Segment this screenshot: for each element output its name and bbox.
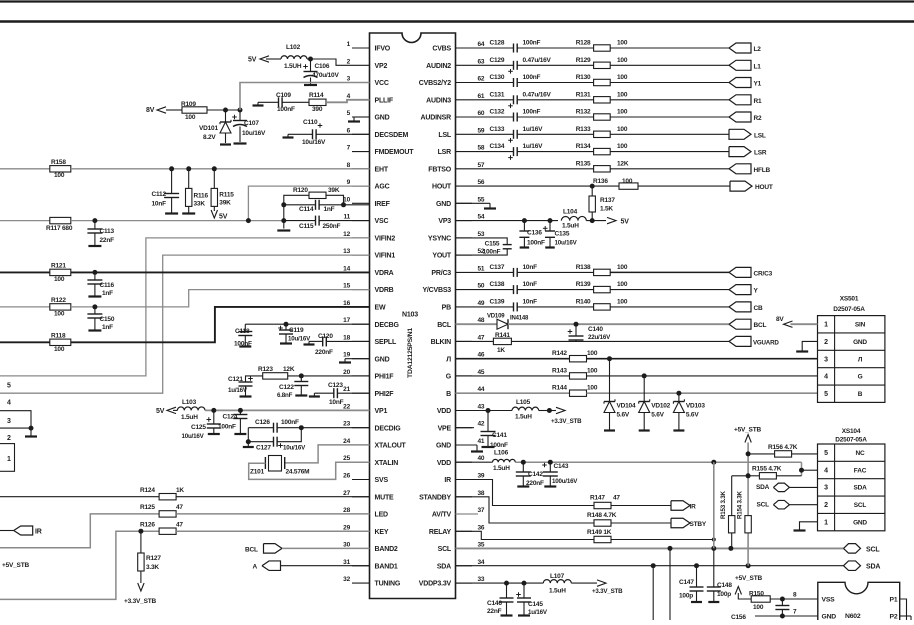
- wire C148 drop: [713, 548, 715, 586]
- wire left edge to R122: [0, 306, 50, 308]
- svg-text:SDA: SDA: [866, 564, 880, 571]
- svg-text:60: 60: [478, 110, 485, 117]
- svg-text:C134: C134: [490, 143, 505, 150]
- svg-text:10nF: 10nF: [329, 399, 344, 406]
- wire left edge to R121: [0, 271, 50, 273]
- svg-text:R147: R147: [590, 495, 605, 502]
- wire R126 to pin 29: [176, 530, 369, 532]
- svg-text:GND: GND: [436, 201, 451, 208]
- pin 41 stub: [436, 438, 485, 450]
- node C112: [169, 166, 174, 171]
- wire pin 36 route: [456, 531, 595, 539]
- pin 48 stub: [437, 317, 485, 329]
- node C127 left: [246, 439, 251, 444]
- svg-text:27: 27: [343, 490, 350, 497]
- svg-text:GND: GND: [375, 115, 390, 122]
- node C122: [299, 373, 304, 378]
- svg-text:IREF: IREF: [375, 201, 391, 208]
- svg-text:BAND2: BAND2: [375, 546, 398, 553]
- svg-text:0.47u/16V: 0.47u/16V: [523, 91, 552, 98]
- svg-text:VCC: VCC: [375, 80, 389, 87]
- svg-text:2: 2: [824, 339, 828, 346]
- wire SCL flag to XS104 pin2: [789, 504, 817, 506]
- svg-text:51: 51: [478, 265, 485, 272]
- svg-text:42: 42: [478, 421, 485, 428]
- svg-text:HOUT: HOUT: [755, 184, 773, 191]
- wire BCL flag to pin 30: [282, 547, 370, 549]
- resistor R141: [493, 332, 511, 354]
- zener VD101: [199, 110, 231, 143]
- svg-text:A: A: [253, 564, 258, 571]
- IC N602 pin GND: [822, 614, 837, 621]
- wire pin 43 to L105: [456, 410, 489, 412]
- connector far-left pin 5: [7, 383, 11, 390]
- resistor R122: [50, 297, 71, 318]
- svg-text:1.5K: 1.5K: [600, 206, 613, 213]
- svg-text:26: 26: [343, 473, 350, 480]
- svg-text:1.5UH: 1.5UH: [284, 63, 302, 70]
- svg-text:10nF: 10nF: [523, 264, 538, 271]
- flag Y1: [729, 78, 762, 88]
- pin 63 stub: [426, 58, 485, 70]
- svg-text:GND: GND: [436, 443, 451, 450]
- svg-text:1u/16V: 1u/16V: [228, 387, 248, 394]
- svg-text:TUNING: TUNING: [375, 581, 401, 588]
- wire ground bus: [277, 205, 290, 231]
- svg-text:41: 41: [478, 438, 485, 445]
- node VD101: [223, 108, 228, 113]
- svg-text:100: 100: [587, 385, 598, 392]
- svg-text:220nF: 220nF: [315, 349, 333, 356]
- node R127: [138, 529, 143, 534]
- wire C147 drop: [696, 566, 698, 587]
- svg-text:STBY: STBY: [690, 521, 707, 528]
- svg-text:Y1: Y1: [754, 81, 762, 88]
- node R115: [212, 166, 217, 171]
- svg-text:+5V_STB: +5V_STB: [734, 427, 761, 434]
- wire pin 9 riser: [248, 186, 369, 221]
- capacitor C121: [228, 376, 263, 396]
- svg-text:C130: C130: [490, 74, 505, 81]
- connector XS104 body: [818, 444, 885, 531]
- svg-text:10u/16V: 10u/16V: [288, 336, 311, 343]
- svg-text:AUDIN2: AUDIN2: [426, 63, 451, 70]
- node R116: [186, 166, 191, 171]
- wire C114 to pin 10: [319, 204, 369, 206]
- node SDA/R154: [746, 563, 751, 568]
- svg-text:GND: GND: [822, 614, 837, 621]
- svg-text:VSC: VSC: [375, 218, 389, 225]
- flag IR (right): [671, 501, 696, 511]
- svg-text:100nF: 100nF: [523, 109, 541, 116]
- wire C155 to pin 52: [456, 249, 508, 255]
- wire R117 to C115: [71, 220, 284, 222]
- svg-text:8V: 8V: [146, 107, 155, 114]
- svg-text:CR/C3: CR/C3: [754, 270, 773, 277]
- capacitor C137 / resistor R138 row: [472, 264, 729, 277]
- wire R121 to pin 14: [71, 271, 370, 273]
- svg-text:24.576M: 24.576M: [286, 469, 310, 476]
- capacitor C114: [299, 200, 335, 213]
- svg-text:3.3K: 3.3K: [146, 564, 159, 571]
- svg-text:38: 38: [478, 490, 485, 497]
- svg-text:FAC: FAC: [854, 467, 867, 474]
- capacitor C106: [303, 59, 339, 84]
- node C145: [522, 581, 527, 586]
- power 5V (L104): [607, 217, 629, 225]
- svg-text:C133: C133: [490, 126, 505, 133]
- pin 3 stub: [347, 76, 389, 88]
- svg-text:31: 31: [343, 559, 350, 566]
- svg-text:FMDEMOUT: FMDEMOUT: [375, 149, 415, 156]
- svg-text:R114: R114: [309, 92, 324, 99]
- wire pin 25 to crystal: [249, 462, 370, 479]
- wire row10 left: [284, 204, 316, 206]
- pin 6 stub: [347, 127, 409, 139]
- ground C143: [544, 485, 556, 487]
- svg-text:+5V_STB: +5V_STB: [735, 575, 762, 582]
- svg-text:5.6V: 5.6V: [686, 412, 699, 419]
- ground VD102: [639, 429, 650, 431]
- svg-text:33K: 33K: [194, 201, 206, 208]
- wire C110 to pin 6: [316, 133, 369, 135]
- capacitor C146: [487, 583, 514, 615]
- node SCL/R153: [728, 546, 733, 551]
- svg-text:G: G: [446, 374, 452, 381]
- svg-text:7: 7: [793, 609, 797, 616]
- connector XS501 title: [833, 296, 865, 314]
- svg-text:11: 11: [344, 214, 351, 221]
- node SDA/C bus: [651, 563, 656, 568]
- svg-text:C126: C126: [255, 419, 270, 426]
- svg-text:VD109: VD109: [487, 314, 505, 320]
- wire R114 to pin 4: [326, 100, 370, 103]
- node SDA/C147: [694, 563, 699, 568]
- svg-text:C147: C147: [679, 579, 694, 586]
- svg-text:250nF: 250nF: [323, 223, 341, 230]
- wire pin 48 to VD109: [456, 323, 498, 325]
- svg-text:SDA: SDA: [853, 485, 867, 492]
- pin 9 stub: [347, 179, 390, 191]
- svg-text:R2: R2: [754, 115, 762, 122]
- svg-text:N602: N602: [845, 613, 861, 620]
- wire FAC to XS104: [802, 469, 818, 471]
- capacitor C133 / resistor R133 row: [472, 126, 729, 143]
- svg-text:C125: C125: [191, 424, 206, 431]
- svg-text:46: 46: [478, 352, 485, 359]
- svg-text:R126: R126: [140, 522, 155, 529]
- svg-text:R121: R121: [51, 263, 66, 270]
- svg-text:VIFIN1: VIFIN1: [375, 253, 396, 260]
- resistor R127: [138, 531, 162, 583]
- svg-text:KEY: KEY: [375, 529, 389, 536]
- svg-text:C119: C119: [289, 327, 304, 334]
- svg-text:R143: R143: [552, 367, 567, 374]
- node C114/C115 ground bus top: [281, 202, 286, 207]
- wire left edge to R124: [0, 496, 159, 498]
- svg-text:LSL: LSL: [438, 132, 452, 139]
- capacitor C127: [256, 437, 306, 452]
- svg-text:R124: R124: [140, 487, 155, 494]
- wire P2 stub: [900, 616, 911, 620]
- svg-text:C109: C109: [276, 92, 291, 99]
- svg-text:55: 55: [478, 196, 485, 203]
- svg-text:RELAY: RELAY: [429, 529, 452, 536]
- svg-text:IR: IR: [35, 529, 42, 536]
- svg-text:VDDP3.3V: VDDP3.3V: [419, 581, 452, 588]
- node C125: [211, 408, 216, 413]
- pin 47 stub: [431, 334, 485, 346]
- pin 40 stub: [437, 455, 485, 467]
- svg-text:XTALIN: XTALIN: [375, 460, 399, 467]
- capacitor C123: [328, 382, 344, 406]
- wire L102 to pin 2: [307, 59, 352, 65]
- capacitor C148: [707, 582, 733, 601]
- svg-text:DECBG: DECBG: [375, 322, 400, 329]
- ground C136: [520, 246, 530, 248]
- pin 64 stub: [432, 41, 485, 53]
- capacitor C140: [568, 324, 611, 341]
- wire R122 jog to pin 15: [71, 290, 370, 307]
- svg-text:SDA: SDA: [437, 563, 451, 570]
- node C141: [486, 408, 491, 413]
- svg-text:16: 16: [343, 300, 350, 307]
- svg-text:VSS: VSS: [822, 597, 836, 604]
- svg-text:10nF: 10nF: [152, 201, 167, 208]
- svg-text:SCL: SCL: [854, 502, 867, 509]
- capacitor C128 / resistor R128 row: [472, 40, 729, 53]
- svg-text:C146: C146: [487, 600, 502, 607]
- svg-text:100nF: 100nF: [527, 240, 545, 247]
- svg-text:AUDIN3: AUDIN3: [426, 97, 451, 104]
- svg-text:YSYNC: YSYNC: [428, 236, 451, 243]
- wire gnd to C109: [258, 101, 279, 103]
- ground C112: [165, 212, 178, 214]
- svg-text:100: 100: [54, 311, 65, 318]
- power 8V: [146, 107, 166, 114]
- svg-text:47: 47: [176, 522, 183, 529]
- svg-text:C136: C136: [527, 230, 542, 237]
- svg-text:61: 61: [478, 93, 485, 100]
- capacitor C135: [543, 221, 578, 247]
- svg-text:R141: R141: [495, 332, 510, 339]
- pin 24 stub: [343, 438, 406, 450]
- capacitor C139 / resistor R140 row: [472, 298, 729, 311]
- svg-text:1: 1: [347, 41, 351, 48]
- svg-text:22u/16V: 22u/16V: [588, 334, 611, 341]
- svg-text:100: 100: [617, 126, 628, 133]
- wire left edge to R118: [0, 341, 50, 343]
- svg-text:22: 22: [343, 404, 350, 411]
- svg-text:R135: R135: [576, 160, 591, 167]
- ground C109 left: [253, 102, 264, 105]
- power +5V_STB (R150): [735, 575, 762, 595]
- svg-text:R128: R128: [576, 40, 591, 47]
- wire C127 left: [248, 441, 273, 443]
- IC reference N602: [845, 613, 861, 620]
- svg-text:TDA12125PS/N1: TDA12125PS/N1: [407, 328, 414, 378]
- svg-text:14: 14: [343, 265, 350, 272]
- op-amp U N103 TDA12125PS body: [370, 33, 456, 599]
- resistor R118: [50, 333, 71, 354]
- pin 32 stub: [343, 576, 401, 588]
- capacitor C143: [542, 462, 578, 485]
- svg-text:59: 59: [478, 127, 485, 134]
- node SCL/713: [711, 546, 716, 551]
- pin 19 stub: [343, 352, 389, 364]
- ground C125: [208, 433, 220, 435]
- svg-text:5: 5: [347, 110, 351, 117]
- node C143: [548, 460, 553, 465]
- wire C127 right: [277, 428, 301, 442]
- resistor R126: [140, 522, 183, 535]
- svg-text:GND: GND: [853, 519, 867, 526]
- svg-text:C135: C135: [555, 231, 570, 238]
- svg-text:LSR: LSR: [754, 150, 767, 157]
- wire gnd to C120: [309, 340, 323, 342]
- svg-text:VDRB: VDRB: [375, 287, 394, 294]
- ground C110 left: [283, 134, 294, 137]
- svg-text:1nF: 1nF: [102, 324, 113, 331]
- pin 38 stub: [419, 490, 485, 502]
- svg-text:5.6V: 5.6V: [651, 412, 664, 419]
- pin 54 stub: [438, 214, 485, 226]
- svg-text:R122: R122: [51, 297, 66, 304]
- svg-text:R137: R137: [600, 197, 615, 204]
- wire SDA drop 653: [652, 566, 654, 620]
- ground C147: [691, 601, 702, 603]
- svg-text:5: 5: [824, 450, 828, 457]
- svg-text:BCL: BCL: [437, 322, 452, 329]
- svg-text:L107: L107: [550, 573, 565, 580]
- inductor L107: [543, 573, 571, 595]
- svg-text:100u/16V: 100u/16V: [552, 478, 578, 485]
- svg-text:10u/16V: 10u/16V: [555, 240, 578, 247]
- svg-text:1u/16V: 1u/16V: [523, 126, 544, 133]
- svg-text:VPE: VPE: [438, 425, 452, 432]
- flag LSL: [729, 129, 766, 139]
- svg-text:100nF: 100nF: [281, 419, 299, 426]
- node C124: [238, 408, 243, 413]
- wire GND row N602: [755, 615, 818, 617]
- svg-text:AUDINSR: AUDINSR: [421, 115, 452, 122]
- svg-text:100: 100: [617, 91, 628, 98]
- svg-text:XS104: XS104: [842, 428, 861, 435]
- svg-text:VP2: VP2: [375, 63, 388, 70]
- svg-text:39K: 39K: [328, 187, 340, 194]
- resistor R114: [309, 92, 326, 113]
- svg-text:B: B: [858, 391, 863, 398]
- svg-text:P2: P2: [890, 614, 898, 621]
- pin 10 stub: [343, 196, 390, 208]
- svg-text:54: 54: [478, 214, 485, 221]
- svg-text:22nF: 22nF: [100, 237, 115, 244]
- ground C124: [234, 433, 246, 435]
- svg-text:100nF: 100nF: [523, 40, 541, 47]
- svg-text:5V: 5V: [156, 408, 165, 415]
- svg-text:1K: 1K: [497, 347, 505, 354]
- svg-text:58: 58: [478, 145, 485, 152]
- svg-text:VP1: VP1: [375, 408, 388, 415]
- ground VD104: [604, 429, 615, 431]
- pin 58 stub: [438, 145, 485, 157]
- pin 14 stub: [343, 265, 394, 277]
- svg-text:R144: R144: [552, 385, 567, 392]
- svg-text:D2507-05A: D2507-05A: [833, 306, 865, 313]
- svg-text:AV/TV: AV/TV: [432, 512, 452, 519]
- svg-text:N103: N103: [402, 312, 418, 319]
- svg-text:C156: C156: [731, 614, 746, 620]
- svg-text:36: 36: [478, 524, 485, 531]
- pin 7 stub: [347, 145, 415, 157]
- svg-text:VD102: VD102: [651, 403, 670, 410]
- svg-text:100: 100: [617, 40, 628, 47]
- wire L104 to 5V: [586, 220, 606, 222]
- svg-text:C116: C116: [100, 282, 115, 289]
- svg-text:STANDBY: STANDBY: [419, 494, 451, 501]
- svg-text:100: 100: [54, 346, 65, 353]
- wire pin 38 route: [456, 497, 595, 523]
- svg-text:FBTSO: FBTSO: [428, 166, 451, 173]
- svg-text:DECSDEM: DECSDEM: [375, 132, 409, 139]
- capacitor C142: [516, 462, 544, 487]
- svg-text:R153 3.3K: R153 3.3K: [720, 490, 727, 519]
- capacitor C122: [277, 376, 308, 399]
- wire R123 to pin 20: [288, 375, 370, 377]
- node C142: [521, 460, 526, 465]
- svg-text:4: 4: [824, 467, 828, 474]
- svg-text:C141: C141: [492, 432, 507, 439]
- capacitor C145: [516, 583, 548, 616]
- svg-text:64: 64: [478, 41, 485, 48]
- wire XS104 pin1 to gnd: [800, 522, 818, 530]
- svg-text:C138: C138: [490, 281, 505, 288]
- wire R149 to bus: [611, 539, 714, 541]
- ground VD103: [673, 429, 684, 431]
- svg-text:NC: NC: [856, 450, 865, 457]
- pin 1 stub: [347, 41, 391, 53]
- svg-text:100p: 100p: [679, 593, 693, 600]
- zener VD102: [639, 376, 671, 430]
- svg-text:7: 7: [347, 145, 351, 152]
- capacitor C130 / resistor R130 row: [472, 74, 729, 87]
- svg-text:C140: C140: [588, 326, 603, 333]
- svg-text:EHT: EHT: [375, 166, 389, 173]
- resistor R153: [720, 476, 735, 549]
- svg-text:+3.3V_STB: +3.3V_STB: [592, 588, 623, 595]
- pin 34 stub: [437, 559, 485, 571]
- wire pin 53 to C155: [456, 238, 508, 244]
- capacitor C138 / resistor R139 row: [472, 281, 729, 294]
- ground pin 19: [339, 359, 370, 363]
- svg-text:PHI1F: PHI1F: [375, 374, 395, 381]
- svg-text:C155: C155: [485, 241, 500, 248]
- svg-text:R130: R130: [576, 74, 591, 81]
- wire SDA row: [456, 565, 844, 567]
- pin 46 stub: [446, 352, 485, 364]
- svg-text:C132: C132: [490, 109, 505, 116]
- svg-text:R129: R129: [576, 57, 591, 64]
- svg-text:C123: C123: [328, 382, 343, 389]
- wire XS501 pin2 to gnd: [802, 341, 817, 350]
- pin 51 stub: [431, 265, 485, 277]
- wire L107 to arrow: [571, 582, 597, 584]
- flag L2: [729, 43, 761, 53]
- svg-text:R150: R150: [749, 591, 764, 598]
- capacitor C136: [519, 221, 545, 247]
- svg-text:R1: R1: [754, 98, 762, 105]
- capacitor C131 / resistor R131 row: [472, 91, 729, 108]
